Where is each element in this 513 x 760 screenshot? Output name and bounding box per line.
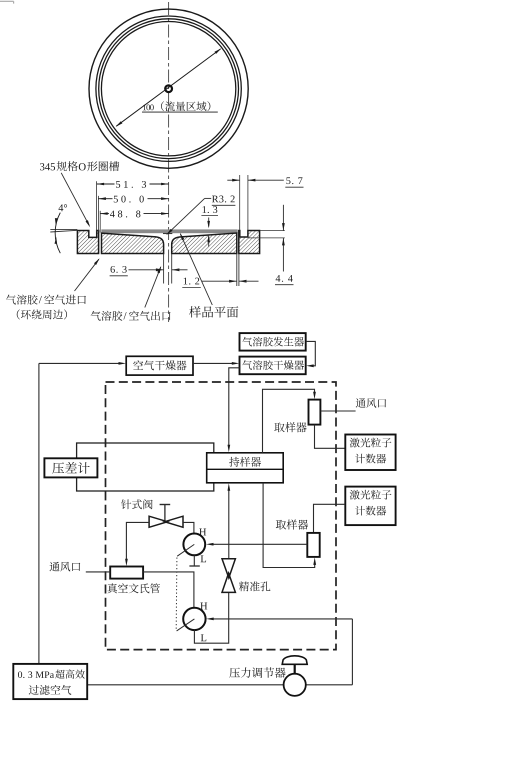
wire aerosol dryer to holder [228, 368, 240, 453]
precision orifice 精准孔 [222, 559, 235, 593]
sample plane (gray membrane) [101, 229, 237, 233]
label sampler1 [274, 422, 306, 432]
label aerosol/air inlet [6, 295, 86, 305]
box laser particle counter 2 [345, 487, 395, 525]
O-ring groove outer circle [96, 16, 241, 161]
box sample holder 持样器 [207, 453, 284, 483]
label pressure regulator 压力调节器 [229, 667, 285, 678]
flowmeter2 circle [183, 608, 205, 630]
chamber dashed boundary [106, 382, 337, 650]
box air dryer 空气干燥器 [126, 356, 193, 375]
sample plane leader [180, 233, 212, 305]
outlet leader [145, 266, 161, 308]
wire regulator to flowmeter2 [206, 618, 352, 621]
box sampler2 取样器 [307, 533, 319, 557]
box aerosol generator 气溶胶发生器 [240, 333, 306, 351]
wire holder to sampler1 [263, 389, 316, 453]
wire valve to venturi [125, 522, 149, 566]
wire filtered air to regulator [87, 684, 352, 686]
box aerosol dryer 气溶胶干燥器 [240, 357, 306, 375]
label precision orifice [239, 581, 270, 591]
centerline (vertical dash-dot) [168, 2, 170, 322]
wire sampler1 to laser counter1 [315, 425, 346, 449]
right slot edge lines below section [237, 254, 239, 287]
dim 51.3 extension line [96, 181, 98, 231]
wire generator to dryer loop [306, 341, 316, 367]
dim 4.4 extension lines [248, 231, 285, 238]
hatch pattern def [0, 0, 1, 1]
right wedge piece (R3.2 corner) [172, 233, 237, 254]
wire: filtered air riser (left) [38, 363, 40, 664]
inlet leader [75, 258, 100, 291]
wire sampler1 vent [320, 410, 355, 412]
flowmeter1 circle [183, 534, 205, 556]
flow-area circle (dia 100) [101, 22, 235, 156]
box sampler1 取样器 [309, 400, 321, 425]
wire into air dryer [39, 362, 126, 365]
leader to O-ring groove [61, 173, 90, 228]
wire flowmeter2 to orifice [194, 592, 228, 643]
label 345-spec O-ring groove [40, 161, 119, 171]
center slot edge lines below section [164, 254, 172, 284]
flowmeter2 needle [177, 619, 195, 631]
label vent1 通风口 [356, 398, 386, 408]
box laser particle counter 1 [345, 435, 395, 471]
label H1 [199, 529, 206, 536]
4 deg dimension arc [55, 213, 61, 254]
dim line 50.0 [98, 196, 168, 203]
label L2 [201, 634, 206, 641]
label sample plane [189, 306, 238, 317]
dim 5.7 extension lines [240, 175, 248, 230]
page corner fragment [0, 1, 14, 3]
flange outer circle [89, 9, 248, 168]
label vacuum venturi [107, 583, 160, 593]
label needle valve 针式阀 [121, 499, 153, 509]
label vent2 通风口 [50, 562, 81, 572]
duct rectangle [77, 443, 214, 491]
box vacuum venturi 真空文氏管 [110, 567, 143, 579]
wire venturi to flowmeter2 [143, 572, 194, 608]
needle valve handle [160, 505, 171, 522]
wire sampler2 to flowmeter1 [206, 543, 307, 546]
label 100 (flow area) [142, 101, 218, 112]
wire sampler2 to laser counter2 [314, 504, 346, 533]
dim 50.0 extension line [97, 196, 99, 232]
dim 6.3 (outlet slot) [110, 266, 188, 276]
dim line 51.3 [97, 181, 169, 188]
dim 48.8 extension line [99, 211, 101, 233]
box 0.3MPa filtered air [13, 664, 87, 699]
dim line 5.7 [227, 177, 303, 187]
left flange block with O-ring groove notch [77, 231, 98, 254]
flowmeter1 drain with end bar [189, 555, 199, 566]
wire holder bottom to sampler2 [263, 483, 316, 568]
label R3.2 with leader [166, 196, 235, 235]
wire regulator riser [351, 619, 353, 685]
box differential pressure gauge 压差计 [44, 458, 97, 477]
dim 1.2 (inlet slot) [182, 278, 258, 288]
diameter dimension line [116, 48, 222, 126]
4 deg reference lines [50, 229, 77, 232]
pressure regulator symbol [282, 656, 307, 696]
dim line 4.4 [275, 205, 294, 285]
center hole circle [165, 85, 172, 92]
wire venturi vent [86, 571, 110, 573]
label H2 [200, 603, 207, 610]
right flange block with O-ring groove notch [239, 231, 260, 254]
label L1 [201, 555, 206, 562]
left wedge piece [102, 233, 164, 253]
wire holder bottom to orifice [228, 483, 231, 558]
wire air dryer to aerosol dryer [193, 362, 239, 365]
label aerosol/air outlet [91, 311, 171, 321]
flowmeter1 needle [177, 544, 194, 556]
O-ring groove inner circle [99, 19, 239, 159]
dim line 48.8 [100, 211, 168, 218]
label (around perimeter) [17, 309, 67, 319]
label sampler2 [276, 519, 308, 529]
dim 1.3 (recess depth) [201, 206, 218, 246]
needle valve body [149, 516, 183, 527]
wire valve to flowmeter1 [183, 522, 194, 533]
dotted link between flowmeters [175, 558, 178, 630]
label 4 deg [59, 204, 68, 211]
